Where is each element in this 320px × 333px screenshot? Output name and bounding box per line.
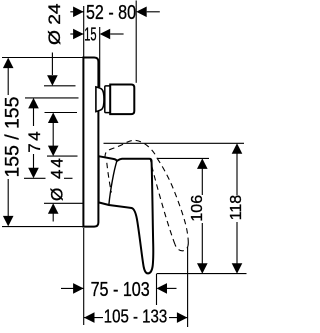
extension line open lever top (118 dim) [104,142,245,144]
dimension 105-133 line+arrows [84,312,95,323]
svg-text:74: 74 [25,129,44,153]
handle neck ring (diam 24) [105,86,110,113]
extension line plate front (15 dim) [99,27,101,87]
svg-text:52 - 80: 52 - 80 [86,0,136,23]
dimension 118 line+arrows [232,143,243,154]
dimension 106 line+arrows [197,158,208,169]
extension line handle tip front (75-103) [156,274,158,305]
svg-text:75 - 103: 75 - 103 [91,278,150,300]
svg-text:155 / 155: 155 / 155 [1,97,23,178]
dimension 15 left arrow [70,33,83,35]
cartridge taper cone [96,87,104,112]
lever boss inner edge [109,161,117,204]
extension line neck bottom [45,112,78,114]
dashed lever tip (open position) [175,243,188,251]
dashed lever arc (top, open position) [105,140,157,158]
svg-text:Ø 44: Ø 44 [47,156,66,201]
extension line lever pivot (74 dim bottom) [24,177,46,179]
svg-text:118: 118 [228,195,245,221]
dimension 155/155 line+arrows [3,58,14,69]
dimension 52-80 left arrow [70,11,83,13]
extension line lever top left (diam 44) [47,155,78,157]
dimension 52-80 right arrow [136,7,147,18]
extension line plate bottom [2,226,83,228]
dimension 75-103 left arrow [61,287,84,289]
extension line knob centre (74 dim) [25,97,79,99]
dashed lever inner edge (open position) [150,159,175,244]
extension line diam 44 bottom [44,202,83,204]
extension line neck top (diam 24) [44,85,76,87]
svg-text:105 - 133: 105 - 133 [104,306,167,327]
dashed boss back edge (open position) [107,163,112,193]
extension line plate back face (bottom) [83,228,85,325]
dimension diam-24 / diam-44 shared arrows [48,113,59,124]
extension line plate back face (top) [83,6,85,58]
dimension 75-103 right arrow [157,283,168,294]
dimension diam-24 top arrow [51,53,53,76]
svg-text:15: 15 [84,25,96,46]
extension line handle tip bottom [157,273,247,275]
dimension 15 right arrow [100,29,111,40]
extension line plate top [2,57,83,59]
svg-text:Ø 24: Ø 24 [45,3,64,45]
dimension 74 line+arrows [28,98,39,109]
extension line lever top right (106 dim) [158,157,210,159]
escutcheon plate (side view) [83,58,98,227]
dashed lever right edge (open position) [157,158,188,243]
lever handle (closed position) [99,156,154,273]
handle end cylinder [110,85,134,115]
extension line open lever tip front (105-133) [187,247,189,327]
extension line handle end (52-80 dim) [135,1,137,83]
svg-text:106: 106 [189,195,206,222]
dimension diam-44 bottom arrow [48,203,59,214]
